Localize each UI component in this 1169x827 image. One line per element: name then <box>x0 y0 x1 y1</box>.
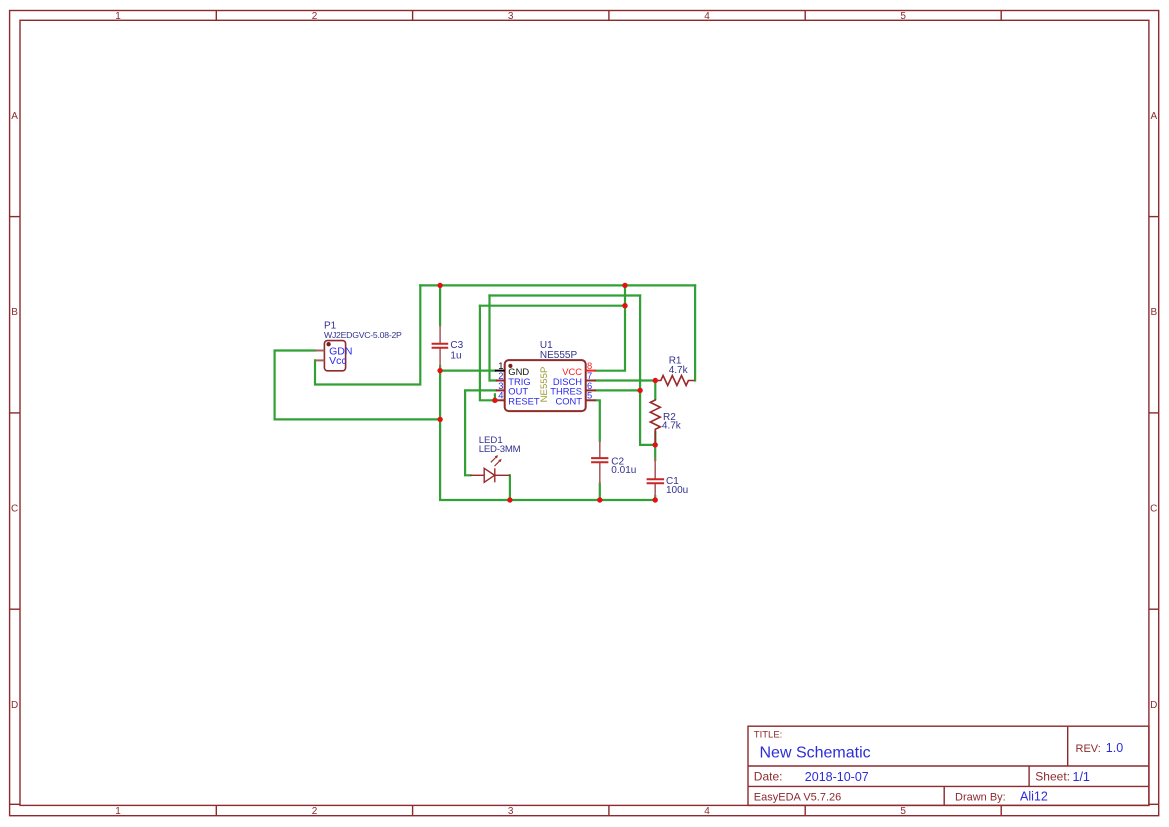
junction C1 bottom rail <box>653 497 658 502</box>
svg-text:Sheet:: Sheet: <box>1035 770 1070 784</box>
junction LED bottom rail <box>507 497 512 502</box>
wire RESET drop <box>480 306 495 401</box>
svg-text:1: 1 <box>115 11 121 22</box>
wire OUT to LED <box>465 390 496 475</box>
svg-text:New Schematic: New Schematic <box>760 744 871 761</box>
resistor R1 <box>655 376 694 386</box>
wire CONT to C2 <box>596 400 600 441</box>
svg-text:C: C <box>11 504 18 515</box>
wire second rail (TRIG-THRES) <box>490 294 641 296</box>
svg-text:4: 4 <box>704 806 710 817</box>
svg-text:1: 1 <box>115 806 121 817</box>
svg-text:RESET: RESET <box>508 396 540 407</box>
capacitor C2 <box>591 441 608 484</box>
svg-text:0.01u: 0.01u <box>611 465 636 476</box>
op-amp / timer IC U1 <box>505 360 586 411</box>
resistor R2 <box>650 399 660 443</box>
svg-text:A: A <box>1150 111 1157 122</box>
wire C1 top lead <box>654 445 656 460</box>
svg-text:WJ2EDGVC-5.08-2P: WJ2EDGVC-5.08-2P <box>324 330 402 340</box>
wire C2 bottom <box>599 484 601 501</box>
U1 pin 5 CONT stub <box>586 399 596 401</box>
wire top VCC rail <box>420 284 695 286</box>
junction C2 bottom rail <box>597 497 602 502</box>
svg-text:4.7k: 4.7k <box>662 420 682 431</box>
svg-text:A: A <box>11 111 18 122</box>
LED1 arrow 2 <box>495 459 502 466</box>
wire C3 top column <box>439 285 441 325</box>
svg-text:NE555P: NE555P <box>539 367 550 403</box>
junction RESET pin <box>492 398 497 403</box>
wire P1 GDN to ground column <box>275 351 441 420</box>
wire TRIG drop <box>490 296 497 381</box>
svg-text:C: C <box>1150 504 1157 515</box>
U1 pin 6 THRES stub <box>586 389 596 391</box>
junction C3 bottom GND <box>437 368 442 373</box>
wire THRES column to R2 bottom <box>640 296 655 445</box>
svg-text:EasyEDA V5.7.26: EasyEDA V5.7.26 <box>754 791 841 803</box>
U1 pin 7 DISCH stub <box>586 380 596 382</box>
junction rail3 VCC column <box>622 303 627 308</box>
wire GND pin link <box>440 370 495 372</box>
wire R1 right riser <box>694 285 696 380</box>
LED LED1 <box>470 468 510 482</box>
svg-text:100u: 100u <box>666 485 688 496</box>
svg-text:5: 5 <box>900 11 906 22</box>
svg-text:2018-10-07: 2018-10-07 <box>805 770 869 784</box>
svg-text:4.7k: 4.7k <box>669 365 689 376</box>
svg-text:3: 3 <box>508 11 514 22</box>
svg-text:3: 3 <box>508 806 514 817</box>
svg-text:1/1: 1/1 <box>1073 770 1090 784</box>
svg-text:CONT: CONT <box>555 396 582 407</box>
wire DISCH to R1 <box>596 379 656 381</box>
wire R2 bottom link <box>654 432 656 445</box>
svg-text:Vcc: Vcc <box>329 355 347 367</box>
svg-text:5: 5 <box>587 390 592 401</box>
svg-text:4: 4 <box>498 390 503 401</box>
svg-text:2: 2 <box>312 806 318 817</box>
svg-text:2: 2 <box>312 11 318 22</box>
junction R2 bottom C1 top <box>653 442 658 447</box>
wire VCC pin drop from top rail <box>596 285 625 370</box>
wire third rail (RESET net) <box>480 305 625 307</box>
svg-text:4: 4 <box>704 11 710 22</box>
svg-text:REV:: REV: <box>1076 743 1101 755</box>
svg-text:Drawn By:: Drawn By: <box>955 791 1006 803</box>
svg-text:5: 5 <box>900 806 906 817</box>
U1 pin 8 VCC stub <box>586 370 596 372</box>
svg-text:D: D <box>1150 700 1157 711</box>
junction ground column P1 <box>437 417 442 422</box>
svg-text:B: B <box>11 307 18 318</box>
capacitor C3 <box>432 325 449 367</box>
junction top rail C3 <box>437 283 442 288</box>
U1 pin 3 OUT stub <box>496 389 505 391</box>
capacitor C1 <box>647 458 665 497</box>
svg-text:NE555P: NE555P <box>540 350 578 361</box>
svg-text:LED-3MM: LED-3MM <box>479 444 521 455</box>
U1 pin 1 GND stub <box>495 370 505 372</box>
U1 pin 4 RESET stub <box>495 399 505 401</box>
svg-text:TITLE:: TITLE: <box>754 730 783 741</box>
wire THRES link <box>596 389 640 391</box>
junction top rail VCC drop <box>622 283 627 288</box>
wire LED cathode drop <box>509 475 511 500</box>
svg-text:B: B <box>1150 307 1157 318</box>
wire R1 left to R2 top <box>654 381 656 400</box>
svg-text:1.0: 1.0 <box>1106 741 1123 755</box>
svg-text:D: D <box>11 700 18 711</box>
wire RESET stub up <box>494 394 496 400</box>
wire P1 Vcc to top rail <box>315 285 420 384</box>
U1 pin 2 TRIG stub <box>496 380 505 382</box>
LED1 arrow 1 <box>491 455 498 462</box>
junction R1 left R2 top <box>653 378 658 383</box>
svg-text:Ali12: Ali12 <box>1020 790 1048 804</box>
connector P1 <box>315 341 345 371</box>
junction THRES column <box>637 388 642 393</box>
wire C1 bottom lead <box>654 496 656 500</box>
svg-text:1u: 1u <box>450 350 461 361</box>
svg-text:Date:: Date: <box>754 770 783 784</box>
wire C3 bottom / ground column <box>440 366 655 500</box>
